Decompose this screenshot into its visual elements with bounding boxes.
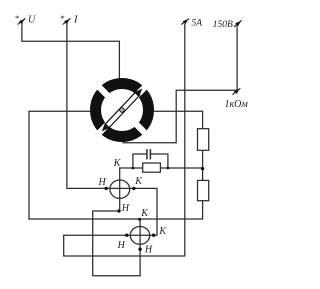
svg-text:К: К xyxy=(158,226,167,237)
wire T1 horizontal winding through-line to T2 K xyxy=(106,188,157,235)
node T1 K right xyxy=(132,187,135,190)
svg-text:*: * xyxy=(60,13,65,23)
wire between resistors R1 R2 xyxy=(202,150,204,180)
svg-text:*: * xyxy=(15,13,20,23)
svg-text:150В: 150В xyxy=(213,20,233,30)
wire T2 vertical winding through-line xyxy=(139,219,141,275)
terminal arrow U xyxy=(18,18,26,24)
terminal arrow 5A xyxy=(181,19,189,25)
svg-text:5А: 5А xyxy=(192,18,203,28)
terminal arrow I xyxy=(63,18,71,24)
node T2 H bottom xyxy=(138,248,141,251)
wire T1 vertical winding through-line xyxy=(119,168,121,211)
resistor R1 xyxy=(198,129,209,151)
wire U terminal to wattmeter top xyxy=(22,24,120,79)
svg-text:Н: Н xyxy=(117,240,126,251)
svg-text:Н: Н xyxy=(144,244,153,255)
svg-text:Н: Н xyxy=(121,203,130,214)
terminal arrow 150V xyxy=(234,20,242,27)
capacitor C plates xyxy=(147,150,151,159)
wire wattmeter left lead down left side xyxy=(29,111,90,219)
svg-text:1кОм: 1кОм xyxy=(225,99,249,110)
node R1-R2 junction xyxy=(201,167,204,170)
wire T2 horizontal winding through-line xyxy=(64,234,154,236)
wire I terminal to transformer T1 H terminal xyxy=(67,24,106,189)
wattmeter W ring xyxy=(96,84,149,137)
node RC left xyxy=(132,167,135,170)
svg-text:К: К xyxy=(140,208,149,219)
resistor RC-branch rectangle xyxy=(143,163,161,172)
wire long horizontal bus y=219 xyxy=(29,201,203,219)
wire RC parallel branch top xyxy=(133,154,168,168)
svg-text:Н: Н xyxy=(98,177,107,188)
node T1 H bottom xyxy=(117,209,120,212)
node RC right xyxy=(167,167,170,170)
node T1 H left xyxy=(105,187,108,190)
wire T2 H to 5A terminal loop xyxy=(64,25,185,257)
node T2 K top junction xyxy=(138,218,141,221)
wire wattmeter bottom lead to 1kOm tap and 150V terminal xyxy=(123,24,237,143)
transformer T1 circle xyxy=(110,180,130,198)
wire T1 H bottom loop to T2 bottom xyxy=(93,211,140,276)
transformer T2 circle xyxy=(130,227,149,245)
svg-text:I: I xyxy=(73,15,78,26)
node T2 H left xyxy=(125,234,128,237)
resistor R2 xyxy=(198,180,209,200)
wattmeter moving coil needle xyxy=(102,89,143,132)
tap arrow 1kOm xyxy=(233,88,241,94)
svg-text:U: U xyxy=(28,15,36,26)
svg-text:К: К xyxy=(113,158,122,169)
node T2 K right xyxy=(152,234,155,237)
wire K line from T1 top through RC to R1-R2 junction xyxy=(120,167,203,169)
wire wattmeter right lead to R1 top xyxy=(154,111,203,128)
svg-text:К: К xyxy=(134,176,143,187)
